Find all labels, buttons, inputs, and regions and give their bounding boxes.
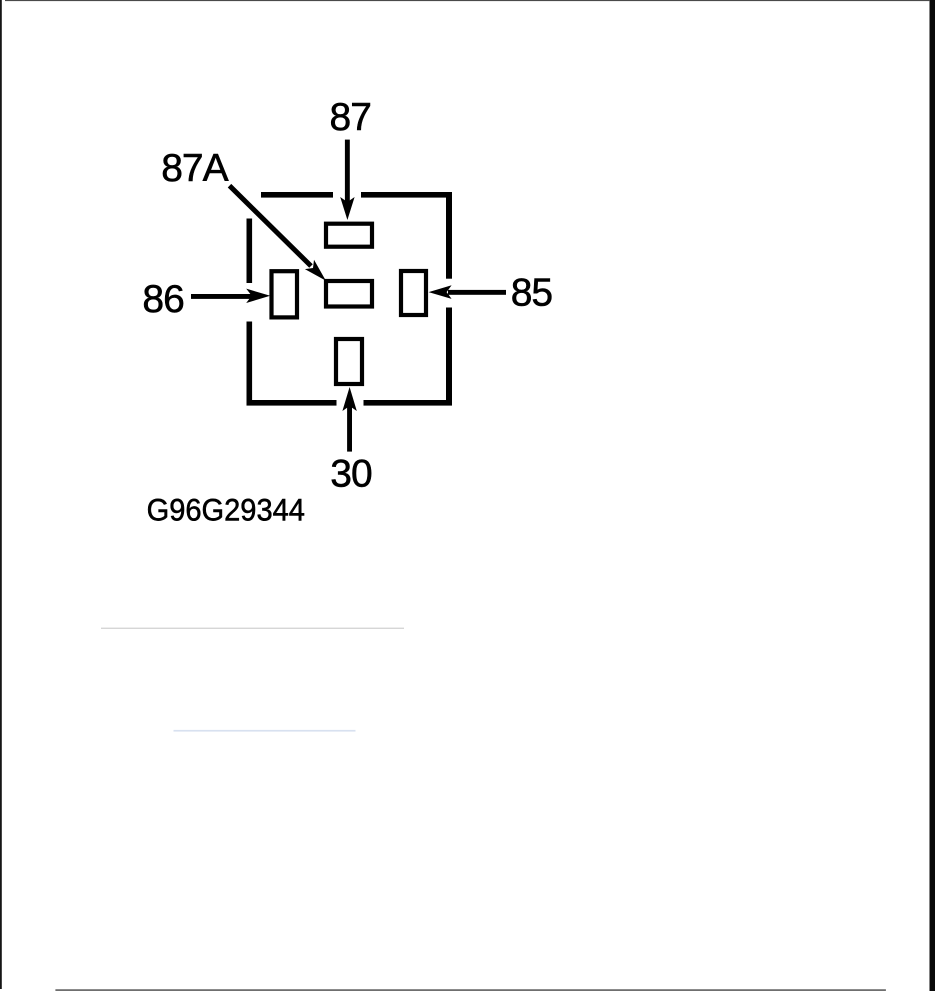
relay case outline: right edge lower segment	[446, 308, 452, 406]
svg-text:85: 85	[511, 271, 553, 314]
arrow 86 (right into left slot)	[191, 289, 270, 303]
page scan border top	[5, 0, 930, 1]
faint separator line (blue)	[174, 730, 356, 732]
relay case outline: bottom edge left segment	[247, 400, 337, 406]
terminal 87 slot	[326, 224, 372, 247]
relay case outline: top edge right segment	[361, 192, 452, 198]
relay case outline: left edge lower segment	[247, 322, 253, 406]
footer rule	[55, 989, 886, 991]
svg-text:G96G29344: G96G29344	[147, 494, 305, 528]
arrow 85 (left into right slot)	[429, 285, 506, 299]
svg-text:87A: 87A	[161, 147, 228, 190]
relay case outline: top edge left segment	[261, 192, 333, 198]
arrow 87 (down into top slot)	[340, 140, 354, 220]
arrow 87A (diagonal to centre slot)	[230, 186, 326, 281]
svg-text:30: 30	[330, 452, 372, 495]
relay case outline: bottom edge right segment	[364, 400, 453, 406]
terminal 87A slot	[326, 281, 372, 307]
relay case outline: left edge upper segment	[247, 219, 253, 284]
page scan border right	[930, 0, 935, 991]
svg-text:86: 86	[142, 278, 183, 321]
terminal 85 slot	[401, 271, 426, 315]
svg-text:87: 87	[330, 96, 371, 139]
faint separator line (gray)	[101, 628, 404, 629]
arrow 30 (up into bottom slot)	[342, 387, 356, 452]
page scan border left	[0, 0, 2, 989]
relay case outline: right edge upper segment	[446, 192, 452, 279]
terminal 30 slot	[336, 339, 362, 384]
terminal 86 slot	[272, 271, 298, 317]
